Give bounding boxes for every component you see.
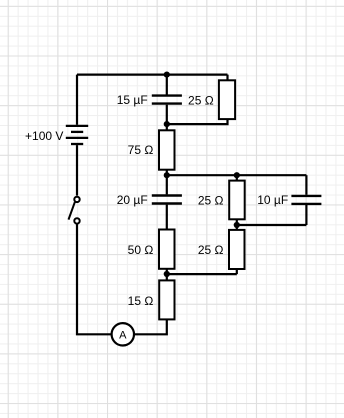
svg-text:75 Ω: 75 Ω bbox=[128, 143, 154, 157]
svg-text:+100 V: +100 V bbox=[25, 129, 63, 143]
svg-text:15 µF: 15 µF bbox=[117, 93, 148, 107]
svg-text:25 Ω: 25 Ω bbox=[198, 194, 224, 208]
svg-text:50 Ω: 50 Ω bbox=[128, 243, 154, 257]
svg-text:25 Ω: 25 Ω bbox=[198, 243, 224, 257]
svg-text:10 µF: 10 µF bbox=[257, 193, 288, 207]
svg-text:15 Ω: 15 Ω bbox=[128, 294, 154, 308]
svg-text:20 µF: 20 µF bbox=[117, 193, 148, 207]
svg-text:25 Ω: 25 Ω bbox=[188, 94, 214, 108]
svg-text:A: A bbox=[119, 329, 127, 341]
